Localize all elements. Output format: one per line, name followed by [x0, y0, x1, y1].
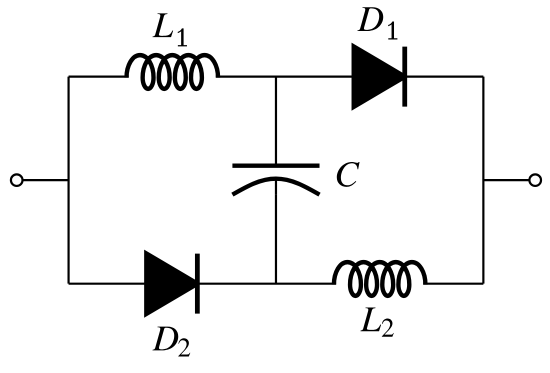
label D2 [152, 327, 178, 351]
label C [337, 162, 360, 187]
wire left port lead [17, 179, 69, 181]
label L1 [153, 13, 174, 37]
inductor L1 [127, 55, 218, 89]
terminal left port open circle [11, 174, 23, 186]
wire middle vertical branch [275, 77, 277, 284]
wire left column [68, 77, 70, 284]
label L2 [360, 307, 381, 331]
label D1 [357, 7, 383, 31]
diode D2 [147, 254, 198, 314]
terminal right port open circle [529, 174, 541, 186]
wire right port lead [483, 179, 535, 181]
diode D1 [354, 47, 405, 107]
wire right column [482, 77, 484, 284]
inductor L2 [334, 262, 425, 296]
wire bottom row segments [69, 283, 484, 285]
wire top row segments [69, 76, 484, 78]
capacitor C [232, 179, 319, 195]
